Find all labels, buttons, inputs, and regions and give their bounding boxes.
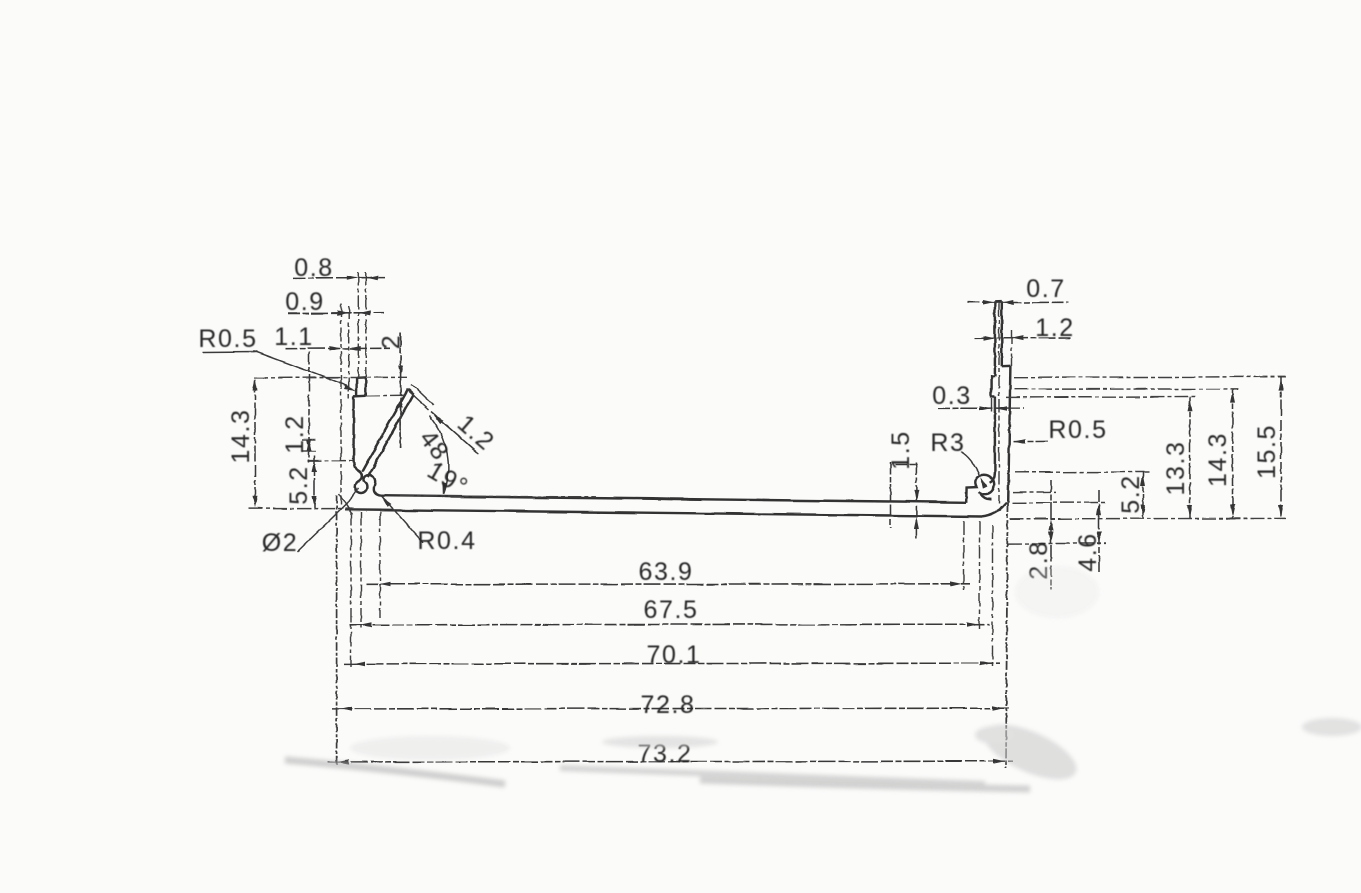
- svg-text:14.3: 14.3: [227, 408, 255, 463]
- profile: right step: [1002, 365, 1011, 368]
- watermark smudges: [285, 566, 1361, 791]
- leader phi2: [297, 488, 358, 552]
- dim 1.5: [891, 462, 919, 538]
- svg-text:5.2: 5.2: [285, 465, 313, 505]
- profile: right wall right face: [1008, 366, 1010, 502]
- dim 73.2: [328, 760, 1013, 763]
- profile: left wall outer face: [352, 396, 354, 461]
- svg-text:14.3: 14.3: [1204, 432, 1232, 487]
- svg-text:0.7: 0.7: [1026, 275, 1066, 303]
- profile: left top tab: [345, 301, 1010, 516]
- dim 15.5: [1280, 377, 1282, 519]
- profile: right top tab: [995, 300, 1002, 303]
- dim 5.2 left: [314, 456, 316, 509]
- svg-text:R3: R3: [930, 429, 965, 457]
- angle arc 48.19: [430, 416, 449, 495]
- svg-text:70.1: 70.1: [646, 641, 701, 669]
- svg-text:2: 2: [378, 334, 406, 350]
- dim 14.3 right: [1232, 389, 1234, 519]
- svg-text:4.6: 4.6: [1074, 532, 1102, 572]
- dim 67.5: [350, 623, 990, 626]
- svg-text:1.2: 1.2: [1035, 314, 1075, 342]
- profile: right snap groove: [966, 474, 994, 502]
- svg-text:1.5: 1.5: [887, 430, 915, 470]
- svg-text:Ø2: Ø2: [262, 529, 299, 557]
- svg-text:1.2: 1.2: [281, 414, 309, 454]
- svg-text:72.8: 72.8: [640, 691, 695, 719]
- leader R3: [961, 452, 980, 476]
- svg-text:0.9: 0.9: [285, 288, 325, 316]
- left 14.3 bottom ext: [249, 508, 352, 510]
- dim 72.8: [332, 707, 1012, 710]
- dim 13.3: [1189, 397, 1191, 518]
- svg-text:5.2: 5.2: [1117, 474, 1145, 514]
- svg-text:13.3: 13.3: [1162, 440, 1190, 495]
- dim 1.2 left: [308, 352, 310, 462]
- extension chains: left top: [249, 272, 597, 509]
- profile: right hook: [991, 377, 995, 397]
- profile: left snap groove: [354, 461, 381, 496]
- dim 0.7: [967, 301, 1069, 303]
- dim 2.8: [1050, 480, 1052, 590]
- svg-text:R0.4: R0.4: [417, 527, 476, 555]
- svg-text:67.5: 67.5: [643, 596, 698, 624]
- profile: right wall left face: [994, 397, 996, 473]
- left 1.2 ticks: [302, 439, 318, 441]
- dim 4.6: [1098, 490, 1100, 575]
- dim 1.2 right: [974, 337, 1073, 339]
- svg-text:0.8: 0.8: [294, 254, 334, 282]
- profile: diagonal fin: [362, 389, 408, 471]
- svg-text:15.5: 15.5: [1253, 424, 1281, 479]
- leader R0.5 right: [1013, 440, 1048, 442]
- dim 0.3: [938, 407, 1024, 409]
- dim 14.3 left: [254, 380, 256, 508]
- dim 70.1: [344, 662, 1000, 665]
- profile: web bottom edge: [345, 509, 982, 516]
- profile: right R3 fillet arc: [982, 502, 1007, 516]
- dim 63.9: [366, 583, 970, 586]
- profile: web top edge: [381, 496, 966, 503]
- dim 1.1: [285, 347, 391, 349]
- dim 0.8: [293, 277, 385, 279]
- svg-text:1.1: 1.1: [274, 323, 314, 351]
- svg-text:63.9: 63.9: [638, 558, 693, 586]
- svg-text:R0.5: R0.5: [1048, 416, 1107, 444]
- leader R0.5 left: [203, 352, 355, 391]
- bottom extension verticals: [0, 0, 1, 1]
- fin dim 1.2 ext ticks: [406, 385, 479, 454]
- svg-text:0.3: 0.3: [932, 382, 972, 410]
- dim 2 vertical: [400, 333, 402, 448]
- right stack extension lines: [1006, 377, 1286, 544]
- left 5.2 top ext: [308, 460, 356, 462]
- leader R0.4: [382, 497, 423, 543]
- svg-text:R0.5: R0.5: [198, 325, 257, 353]
- dim 5.2 right: [1142, 472, 1144, 519]
- right top chains: [992, 303, 1012, 503]
- profile: left ledge: [353, 395, 366, 398]
- dim 0.9: [288, 312, 384, 314]
- ledge ext dashed: [366, 394, 407, 397]
